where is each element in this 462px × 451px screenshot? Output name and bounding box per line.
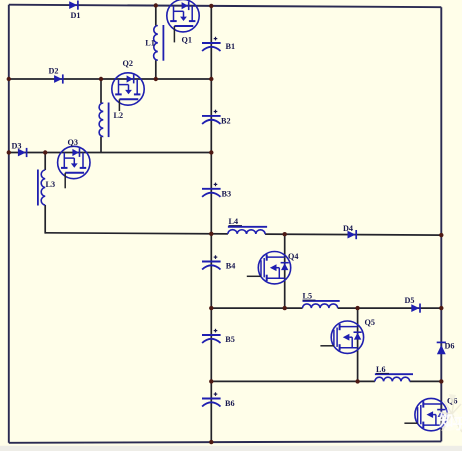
diode D2 (54, 74, 63, 83)
junction L1 bottom (154, 77, 158, 81)
label B3 (222, 190, 232, 199)
svg-text:L5: L5 (303, 292, 313, 301)
wire row 6 left (211, 380, 375, 382)
svg-text:L6: L6 (376, 365, 386, 374)
wire bottom rail (9, 441, 442, 442)
mosfet Q3 (58, 146, 90, 188)
wire middle bus (210, 6, 212, 442)
svg-text:D6: D6 (445, 342, 455, 351)
junction top-bus (209, 4, 213, 8)
wire row 4 left (45, 233, 228, 234)
svg-text:L1: L1 (145, 39, 155, 48)
junction row2 left (7, 77, 11, 81)
svg-text:B5: B5 (225, 335, 235, 344)
junction row5 bus (209, 306, 213, 310)
junction L3 top (43, 150, 47, 154)
junction row6 right (439, 379, 443, 383)
label L2 (114, 111, 124, 120)
svg-text:Q4: Q4 (288, 252, 298, 261)
diode D5 (411, 304, 420, 313)
label Q5 (365, 318, 375, 327)
svg-text:Q2: Q2 (123, 59, 133, 68)
wire L2 branch (100, 79, 102, 153)
label B2 (221, 117, 231, 126)
wire Q5 branch (357, 308, 359, 381)
svg-text:B2: B2 (221, 117, 231, 126)
label L1 (145, 39, 155, 48)
label B6 (225, 399, 235, 408)
mosfet Q1 (167, 0, 199, 42)
wire row 5 right (338, 307, 442, 309)
svg-text:D2: D2 (49, 67, 59, 76)
wire L1 branch (155, 6, 157, 80)
svg-text:D3: D3 (12, 141, 22, 150)
svg-text:B3: B3 (222, 190, 232, 199)
label D5 (405, 296, 415, 305)
label L3 (46, 180, 56, 189)
wire Q4 branch (284, 234, 286, 308)
capacitor B6 (202, 392, 221, 406)
capacitor B1 (202, 37, 221, 51)
junction bottom-bus (209, 440, 213, 444)
junction L1 top (154, 3, 158, 7)
capacitor B5 (202, 329, 221, 343)
label D6 (445, 342, 455, 351)
junction Q5 bottom (355, 379, 359, 383)
junction row3 bus (209, 150, 213, 154)
junction row4 bus (209, 232, 213, 236)
wire left rail (8, 5, 10, 443)
label Q4 (288, 252, 298, 261)
label L6 (376, 365, 389, 374)
svg-text:D1: D1 (71, 11, 81, 20)
label D2 (49, 67, 59, 76)
svg-text:Q5: Q5 (365, 318, 375, 327)
label D1 (71, 11, 81, 20)
wire right bus (440, 7, 442, 441)
capacitor B2 (202, 110, 221, 124)
junction L2 top (99, 77, 103, 81)
wire row 6 right (410, 380, 442, 382)
junction row5 right (439, 306, 443, 310)
label Q1 (182, 36, 192, 45)
junction Q4 top (283, 232, 287, 236)
svg-text:L4: L4 (229, 217, 239, 226)
mosfet Q5 (320, 321, 363, 353)
junction row4 right (439, 233, 443, 237)
inductor L3 (38, 170, 45, 206)
capacitor B4 (202, 255, 221, 269)
inductor L4 (228, 227, 267, 234)
wire row 4 right (265, 234, 441, 235)
wire row 5 left (211, 307, 302, 309)
svg-text:L2: L2 (114, 111, 124, 120)
mosfet Q2 (112, 73, 144, 111)
label B4 (226, 262, 236, 271)
label L4 (229, 217, 243, 226)
svg-text:知: 知 (439, 412, 454, 430)
wire row 3 (9, 152, 212, 154)
svg-text:D4: D4 (343, 224, 353, 233)
label Q6 (447, 397, 457, 406)
junction row6 bus (209, 379, 213, 383)
wire L3 branch (44, 153, 46, 234)
mosfet Q6 (404, 398, 447, 430)
inductor L2 (99, 103, 109, 138)
label Q2 (123, 59, 133, 68)
svg-text:乎: 乎 (453, 416, 462, 433)
label L5 (303, 292, 316, 301)
junction Q5 top (355, 306, 359, 310)
junction row2 bus (209, 77, 213, 81)
bottom margin strip (0, 446, 462, 451)
diode D3 (18, 148, 27, 157)
label D4 (343, 224, 353, 233)
wire top rail (9, 5, 442, 8)
diode D4 (348, 230, 357, 239)
label B5 (225, 335, 235, 344)
capacitor B3 (202, 183, 221, 197)
inductor L5 (303, 301, 340, 308)
svg-text:B6: B6 (225, 399, 235, 408)
mosfet Q4 (247, 252, 291, 284)
wire row 2 (9, 78, 212, 80)
label B1 (226, 42, 236, 51)
svg-text:B1: B1 (226, 42, 236, 51)
svg-text:B4: B4 (226, 262, 236, 271)
inductor L1 (154, 25, 164, 61)
svg-text:L3: L3 (46, 180, 56, 189)
svg-text:D5: D5 (405, 296, 415, 305)
svg-text:Q3: Q3 (68, 138, 78, 147)
label D3 (12, 141, 22, 150)
watermark zhihu (438, 394, 462, 433)
inductor L6 (375, 374, 413, 381)
label Q3 (68, 138, 78, 147)
junction Q4 bottom (283, 306, 287, 310)
junction row3 left (7, 150, 11, 154)
diode D6 (437, 342, 446, 354)
diode D1 (69, 1, 78, 10)
svg-text:Q1: Q1 (182, 36, 192, 45)
